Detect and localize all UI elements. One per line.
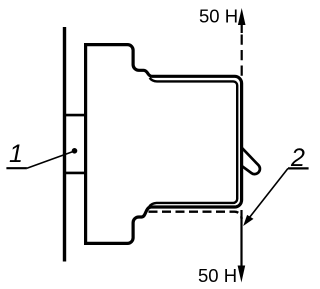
label 2 leader arrowhead <box>243 215 253 226</box>
label 2 underline <box>288 167 309 169</box>
top force dashed line <box>241 35 243 77</box>
bottom force line <box>240 210 242 268</box>
deflected arm dashed line <box>149 212 242 219</box>
lance tab <box>242 148 260 175</box>
clip body outline <box>84 44 242 244</box>
mount block bottom line <box>65 172 86 175</box>
mount block top line <box>65 114 86 117</box>
wall panel line <box>63 27 66 262</box>
svg-text:1: 1 <box>9 140 23 168</box>
top force arrow shaft <box>241 14 243 33</box>
svg-text:50 Н: 50 Н <box>198 265 237 286</box>
label 1 leader <box>27 151 75 168</box>
bottom force arrowhead <box>238 266 246 283</box>
svg-text:50 Н: 50 Н <box>199 6 238 27</box>
spring inner line <box>149 78 237 206</box>
label 2 leader <box>246 168 289 222</box>
top force arrowhead <box>238 8 246 25</box>
label 1 underline <box>6 167 27 169</box>
label 1 leader dot <box>72 148 78 154</box>
